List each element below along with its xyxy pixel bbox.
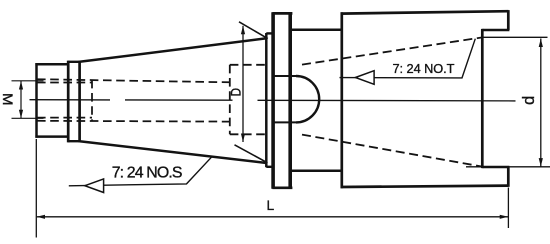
slot bottom line — [274, 121, 296, 123]
internal taper hidden line bottom — [302, 135, 482, 167]
flange left face — [271, 12, 275, 189]
threaded end cylinder — [35, 63, 68, 138]
dimension M arrows — [19, 81, 23, 118]
body bottom edge — [341, 186, 509, 187]
thread hidden line bottom — [37, 117, 92, 119]
dimension L extension left — [35, 139, 37, 238]
dimension d extension top — [484, 36, 548, 38]
rim top right vertical — [507, 10, 510, 30]
rim bottom topside — [482, 166, 509, 168]
dimension M extension top — [12, 80, 44, 82]
taper cone bottom line — [80, 141, 267, 163]
axis centerline — [30, 100, 516, 101]
leader 7:24 NO.T shaft — [340, 39, 476, 78]
dimension L extension right — [507, 188, 509, 229]
gauge ring top edge — [266, 32, 274, 34]
dimension D line — [242, 26, 244, 142]
gauge ring face — [265, 33, 268, 167]
dimension M line — [20, 81, 22, 118]
bore hidden line bottom — [37, 120, 230, 123]
dimension D arrows — [241, 26, 245, 142]
dimension M extension bottom — [12, 117, 44, 119]
collar verticals — [68, 61, 79, 143]
gauge diagonal top — [239, 22, 268, 39]
hollow arrow NO.T — [355, 71, 374, 85]
hidden box top — [230, 64, 266, 66]
rim top underside — [482, 29, 509, 31]
dimension L line — [37, 216, 508, 218]
rim bottom right vertical — [507, 167, 510, 187]
flange bottom edge — [272, 186, 292, 189]
hollow arrow NO.S — [85, 179, 104, 193]
taper cone top line — [80, 38, 267, 62]
body right face — [481, 29, 484, 168]
dimension d arrows — [539, 39, 543, 167]
gauge diagonal bottom — [235, 145, 268, 163]
internal taper hidden line top — [302, 37, 482, 64]
dimension d line — [540, 39, 542, 167]
thread depth hidden vertical — [91, 80, 93, 121]
gauge ring bottom edge — [266, 166, 274, 168]
dimension L arrows — [37, 215, 509, 219]
slot top line — [274, 75, 296, 77]
collar edges — [68, 62, 79, 141]
body left face — [340, 12, 343, 188]
hidden box vertical — [229, 65, 231, 135]
bore hidden line top — [37, 79, 230, 82]
hidden box bottom — [230, 133, 266, 135]
flange top edge — [272, 12, 292, 15]
svg-text:7: 24 NO.S: 7: 24 NO.S — [112, 165, 183, 182]
leader 7:24 NO.S shaft — [69, 157, 212, 186]
svg-text:D: D — [228, 88, 244, 97]
flange right face — [288, 12, 292, 189]
thread hidden line top — [37, 82, 92, 84]
svg-text:7: 24 NO.T: 7: 24 NO.T — [393, 61, 455, 76]
svg-text:M: M — [0, 93, 14, 106]
body top edge — [341, 11, 509, 13]
svg-text:d: d — [520, 96, 538, 105]
neck bottom edge — [291, 170, 343, 173]
dimension d extension bottom — [466, 166, 550, 168]
neck top edge — [291, 28, 343, 31]
slot semicircle — [296, 76, 319, 122]
svg-text:L: L — [266, 198, 274, 213]
